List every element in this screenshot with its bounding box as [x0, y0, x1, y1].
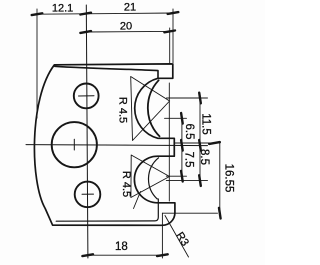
tick — [80, 31, 91, 33]
tick — [199, 140, 201, 151]
svg-text:20: 20 — [120, 21, 132, 33]
wire: extension B upper notch center — [165, 117, 187, 119]
wire: extension for 16.55 bottom — [162, 212, 217, 214]
node: H2 center mark — [73, 139, 75, 150]
tick — [181, 171, 183, 182]
svg-text:8.5: 8.5 — [198, 149, 210, 165]
svg-text:12.1: 12.1 — [52, 3, 73, 15]
tick — [199, 93, 201, 104]
wire: extension line right x=173 for 21 — [172, 9, 174, 63]
svg-text:18: 18 — [115, 241, 128, 253]
tick — [164, 31, 175, 33]
tick — [199, 175, 201, 186]
bevel upper notch inner arc — [148, 80, 160, 136]
svg-text:R3: R3 — [173, 230, 191, 248]
bevel top line — [55, 66, 158, 78]
wire: blank mouth line — [168, 83, 170, 201]
svg-text:21: 21 — [124, 2, 136, 14]
part outline — [34, 64, 174, 225]
dimension 16.55 line — [219, 143, 221, 213]
node: H3 center mark — [82, 193, 94, 195]
tick — [157, 254, 168, 256]
node: H1 center mark — [79, 95, 95, 97]
wire: extension A upper notch top — [167, 97, 208, 99]
dimension 18 line — [88, 254, 163, 256]
wire: extension line x=169.7 for 20 — [169, 28, 171, 64]
tick — [209, 142, 220, 144]
dimension 20 line — [86, 30, 170, 33]
dimension 11.5 / 8.5 line — [199, 98, 201, 181]
wire: extension C lower notch center — [166, 175, 186, 177]
wire: extension right for 18 — [161, 213, 163, 258]
tick — [181, 113, 183, 124]
svg-text:7.5: 7.5 — [182, 152, 194, 168]
hole H1 small top — [74, 84, 99, 109]
svg-text:16.55: 16.55 — [223, 164, 235, 193]
wire: extension for 16.55 top — [175, 142, 220, 144]
dimension 6.5 / 7.5 line — [181, 118, 183, 176]
dimension 12.1 / 21 line — [37, 13, 173, 14]
leader: R4.5 lower V lines — [131, 155, 170, 209]
leader: R4.5 upper V lines — [131, 77, 170, 141]
svg-text:R 4.5: R 4.5 — [117, 97, 129, 123]
wire: extension line left for 12.1 — [36, 9, 38, 118]
tick — [181, 140, 183, 151]
wire: vertical hole centerline — [86, 5, 88, 258]
tick — [80, 13, 91, 15]
leader: R3 — [165, 216, 189, 258]
tick — [32, 13, 43, 15]
bevel lower notch inner arc — [56, 158, 158, 221]
wire: extension D lower limiter center — [166, 180, 207, 182]
svg-text:6.5: 6.5 — [183, 124, 195, 140]
svg-text:11.5: 11.5 — [200, 113, 212, 135]
hole H3 small bottom — [75, 182, 101, 208]
tick — [219, 208, 221, 219]
tick — [168, 12, 179, 14]
hole H2 large middle — [52, 122, 97, 167]
svg-text:R 4.5: R 4.5 — [120, 171, 132, 197]
tick — [82, 254, 93, 256]
wire: horizontal centerline through large hole — [26, 145, 208, 146]
